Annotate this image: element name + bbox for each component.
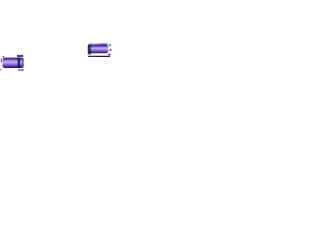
node A upper-left blue port dot (3, 56, 5, 58)
node B bottom edge line (88, 56, 110, 57)
node A left port tick (0, 58, 3, 63)
node A dark divider band (18, 58, 20, 68)
node A bottom-left faint speck (0, 69, 1, 71)
node A blue label dash above right end (17, 55, 23, 57)
node B: right collapsed node pill (88, 45, 109, 54)
node B left cap shade (88, 45, 89, 53)
node B middle purple port dot (109, 49, 111, 51)
node B bottom-left dark dash (88, 53, 91, 54)
node B bottom violet port dot (108, 53, 111, 56)
node A purple label dash below right end (18, 69, 24, 71)
node B green input port dot (109, 44, 111, 46)
node B dark header band (88, 45, 90, 54)
node A: left collapsed node pill (2, 58, 23, 68)
node B top edge line (90, 44, 108, 45)
node B inner stripe shade (90, 45, 92, 54)
node A right cap shade (22, 58, 24, 68)
node B top-left blue speck (88, 44, 89, 45)
